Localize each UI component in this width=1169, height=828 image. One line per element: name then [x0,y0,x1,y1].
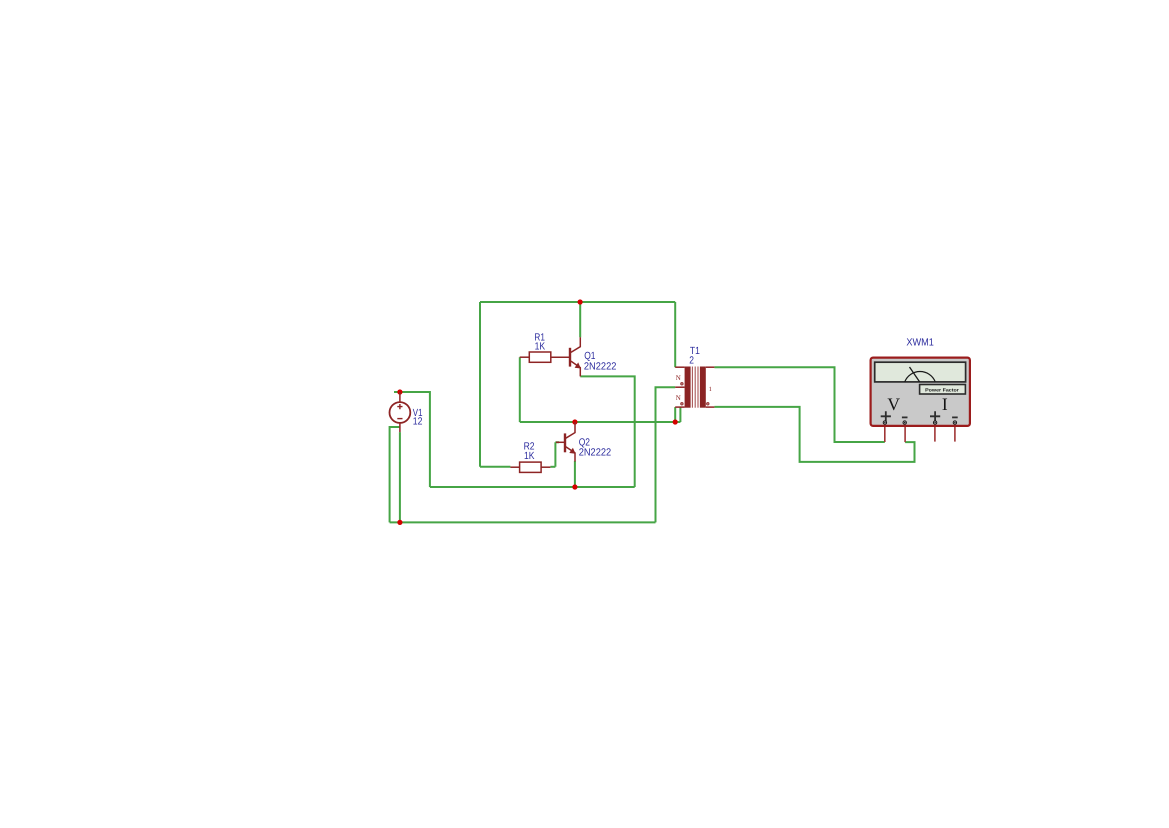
svg-text:2N2222: 2N2222 [579,448,612,459]
svg-text:XWM1: XWM1 [906,337,934,348]
svg-text:1K: 1K [535,341,546,352]
svg-text:Power Factor: Power Factor [925,387,959,392]
svg-text:1: 1 [709,386,712,393]
svg-text:1K: 1K [524,451,535,462]
svg-text:2: 2 [689,355,694,366]
svg-text:N: N [676,394,681,402]
svg-text:2N2222: 2N2222 [584,361,617,372]
svg-text:N: N [676,374,681,382]
svg-text:Q1: Q1 [584,351,595,362]
svg-text:V: V [887,394,900,414]
svg-text:I: I [942,394,948,414]
svg-text:12: 12 [413,417,423,428]
